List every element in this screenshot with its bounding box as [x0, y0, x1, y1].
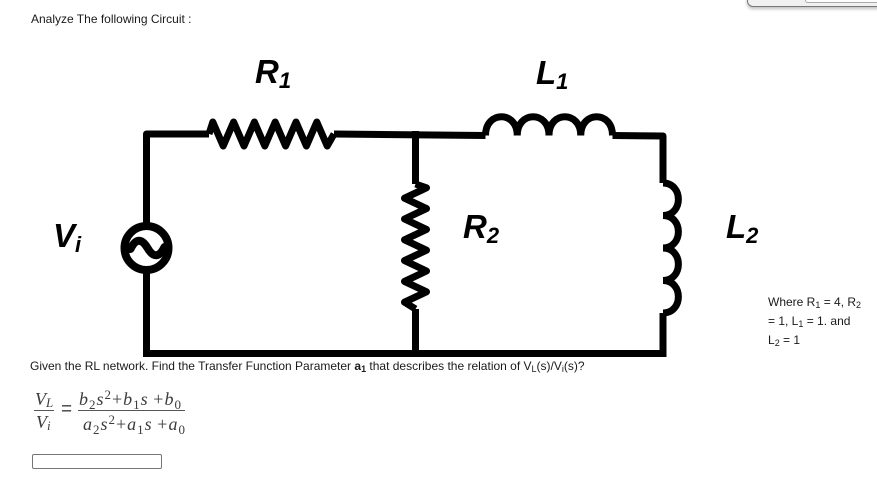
toolbar fragment (cut off at top right) — [747, 0, 877, 7]
label Vi — [53, 217, 81, 258]
answer input box — [32, 454, 162, 469]
wire: middle vertical lower — [412, 309, 419, 357]
wire: bottom — [143, 350, 667, 357]
question text — [30, 359, 585, 374]
resistor R1 — [209, 122, 334, 146]
wire: middle vertical upper + junction — [412, 131, 419, 184]
wire: top middle segment — [334, 134, 486, 136]
wire: top-right corner + upper right vertical — [613, 136, 664, 184]
wire: top-left corner + upper left vertical — [147, 134, 210, 226]
fraction bar right — [78, 410, 185, 411]
toolbar inner input fragment — [805, 0, 877, 3]
numerator b2s2+b1s+b0 — [79, 388, 182, 411]
wire: lower left vertical — [143, 270, 150, 357]
label R2 — [463, 208, 499, 249]
component values note — [768, 294, 861, 351]
label L1 — [536, 54, 568, 95]
title text — [31, 12, 192, 26]
inductor L1 — [486, 117, 613, 136]
denominator a2s2+a1s+a0 — [83, 413, 186, 436]
wire: lower right vertical — [660, 313, 667, 357]
inductor L2 — [663, 183, 678, 313]
transfer function formula: VL over Vi — [35, 390, 53, 409]
equals sign — [61, 400, 72, 419]
fraction bar left — [34, 410, 54, 411]
label L2 — [726, 208, 758, 249]
resistor R2 — [405, 184, 427, 309]
source Vi — [125, 226, 169, 270]
label R1 — [255, 53, 291, 94]
